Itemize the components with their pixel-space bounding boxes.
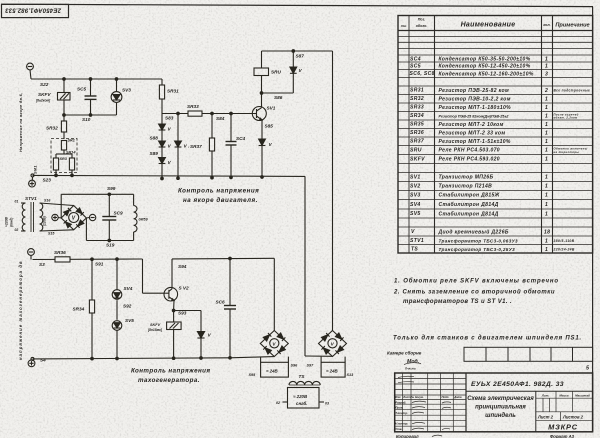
svg-text:SR1: SR1 (68, 139, 75, 143)
svg-text:SR36: SR36 (54, 250, 66, 255)
svg-text:принципиальная: принципиальная (475, 405, 526, 411)
svg-text:SR14: SR14 (66, 151, 76, 155)
svg-text:1: 1 (545, 113, 548, 119)
svg-text:S10: S10 (82, 117, 91, 122)
svg-text:S92: S92 (123, 304, 132, 309)
svg-text:Изм: Изм (395, 395, 400, 399)
svg-text:Резистор ПЭВ-25-82 ком: Резистор ПЭВ-25-82 ком (439, 88, 510, 94)
transistor SV1 (252, 106, 275, 121)
diode V at SRU (290, 50, 303, 93)
revision header texts (395, 395, 462, 399)
svg-text:Контроль напряжения: Контроль напряжения (178, 188, 259, 195)
svg-text:SC9: SC9 (114, 211, 124, 216)
terminal S3 (minus) (28, 249, 35, 260)
svg-text:трансформаторов ТS и SТ V1. .: трансформаторов ТS и SТ V1. . (403, 298, 512, 305)
svg-text:SТV1: SТV1 (25, 196, 37, 201)
svg-text:SR31: SR31 (410, 88, 424, 94)
svg-text:Диод кремниевый Д226Б: Диод кремниевый Д226Б (438, 228, 509, 235)
svg-text:3: 3 (545, 71, 548, 77)
wire top rail y79 (31, 78, 162, 80)
svg-text:SKFV: SKFV (38, 92, 51, 97)
svg-text:SV4: SV4 (124, 286, 133, 291)
primary voltage rotated label (5, 216, 9, 227)
svg-text:Резистор МЛТ-1-51к±10%: Резистор МЛТ-1-51к±10% (439, 139, 511, 145)
caption tacho control (131, 368, 210, 385)
svg-text:Мод.: Мод. (407, 359, 419, 365)
svg-text:1: 1 (545, 148, 548, 154)
junction x231 on base line (230, 112, 233, 115)
svg-text:Утв.: Утв. (395, 427, 402, 431)
resistor SR1 (61, 139, 74, 151)
svg-text:SC4: SC4 (236, 136, 246, 141)
svg-text:SR36: SR36 (410, 130, 424, 136)
wire secondary top to bridge (40, 203, 74, 206)
wire section1 rail down to bridge2 bottom (305, 176, 333, 356)
svg-text:[8±15мк]: [8±15мк] (147, 328, 163, 332)
winding box 24V right (321, 357, 345, 377)
svg-text:≈ 220В: ≈ 220В (293, 394, 308, 399)
svg-text:SV2: SV2 (410, 184, 421, 190)
svg-text:1: 1 (545, 105, 548, 111)
svg-text:SV1: SV1 (267, 106, 276, 111)
svg-text:ТS: ТS (299, 374, 306, 379)
revision grid (395, 373, 466, 432)
svg-text:ЕУЬХ 2Е450АФ1. 982Д. 33: ЕУЬХ 2Е450АФ1. 982Д. 33 (471, 381, 564, 388)
diode V d column (175, 114, 190, 179)
svg-text:1. Обмотки реле SKFV включен: 1. Обмотки реле SKFV включены встречно (394, 278, 559, 285)
relay coil SKFV (35, 92, 70, 103)
svg-text:18: 18 (544, 229, 550, 235)
svg-text:380/5-110В: 380/5-110В (554, 239, 575, 243)
svg-text:Реле РКН РС4.503.070: Реле РКН РС4.503.070 (439, 148, 500, 154)
diode V c (159, 147, 172, 179)
corner designation box (2, 4, 69, 17)
svg-text:Стабилитрон Д814Д: Стабилитрон Д814Д (439, 201, 499, 208)
svg-text:Примечание: Примечание (555, 22, 589, 28)
svg-text:S13: S13 (347, 373, 355, 377)
table headers (401, 18, 590, 29)
svg-text:Подп.: Подп. (442, 395, 450, 399)
bridge rectifier V diamond (61, 206, 86, 230)
svg-text:[8±2ком]: [8±2ком] (35, 99, 51, 103)
svg-text:Только для станков с двигателе: Только для станков с двигателем шпинделя… (393, 336, 582, 342)
svg-text:Поз.: Поз. (418, 18, 426, 22)
wire collector to rail (171, 259, 173, 289)
resistor SR3 left (53, 158, 58, 170)
svg-text:SC5: SC5 (77, 87, 87, 92)
svg-text:SKFV: SKFV (150, 323, 161, 327)
wire long vertical to bridge2 (332, 51, 334, 331)
svg-text:Лит.: Лит. (541, 394, 550, 398)
svg-text:SV5: SV5 (125, 318, 134, 323)
svg-text:Транзистор МП26Б: Транзистор МП26Б (439, 175, 494, 181)
svg-text:Дата: Дата (453, 395, 462, 399)
svg-text:Лист: Лист (402, 395, 411, 399)
indicator diode SV5 (112, 300, 134, 358)
svg-text:1: 1 (545, 122, 548, 128)
winding box 24V left (261, 357, 289, 377)
capacitor SC9 (102, 194, 123, 242)
svg-text:02: 02 (15, 228, 19, 232)
svg-text:S19: S19 (106, 243, 115, 248)
svg-text:S23: S23 (43, 178, 52, 183)
wire node S10 horizontal (64, 114, 117, 116)
svg-text:02: 02 (276, 401, 280, 405)
wire to parallel pair (56, 150, 76, 158)
svg-text:кол.: кол. (543, 23, 550, 27)
svg-text:обкат. 2,2ком: обкат. 2,2ком (554, 116, 579, 120)
svg-text:Лист 2: Лист 2 (537, 414, 554, 419)
transformer STV1 secondary winding (40, 203, 43, 231)
primary supply box 220V (283, 388, 325, 409)
svg-text:S84: S84 (216, 116, 225, 121)
svg-text:снаб.: снаб. (296, 401, 307, 406)
svg-text:№ докум.: № докум. (411, 395, 424, 399)
svg-text:1: 1 (545, 57, 548, 63)
svg-text:S99: S99 (107, 186, 116, 191)
svg-text:SR37: SR37 (410, 139, 424, 145)
svg-text:ТS: ТS (411, 247, 418, 253)
relay coil SKFV second winding (147, 311, 181, 359)
terminal S22 (minus) (27, 63, 34, 79)
svg-text:Резистор МЛТ-1-180±10%: Резистор МЛТ-1-180±10% (439, 105, 512, 111)
svg-text:(120В): (120В) (43, 216, 47, 226)
svg-text:V: V (411, 229, 415, 235)
transformer core (31, 202, 34, 232)
svg-text:S96: S96 (291, 364, 299, 368)
svg-text:Напряжение на якоре дв.6,: Напряжение на якоре дв.6, (18, 93, 23, 152)
svg-text:Резистор ПЭВ-10-2,2 ком: Резистор ПЭВ-10-2,2 ком (439, 96, 511, 102)
svg-text:SR31: SR31 (167, 89, 179, 94)
capacitor SC6 (216, 259, 237, 358)
indicator diode SV4 (112, 259, 133, 299)
relay SRU (254, 68, 282, 76)
svg-text:01: 01 (15, 200, 19, 204)
svg-text:Контроль напряжения: Контроль напряжения (131, 368, 210, 375)
svg-text:на якоре двигателя.: на якоре двигателя. (183, 197, 258, 204)
junction at 64,115 (63, 114, 66, 117)
wire bottom rail S19 (86, 240, 133, 242)
wire secondary bottom to bridge (40, 230, 74, 231)
resistor SR37 (190, 114, 215, 178)
svg-text:SRU: SRU (410, 148, 422, 154)
svg-text:STV1: STV1 (410, 238, 424, 244)
svg-text:SV3: SV3 (410, 193, 421, 199)
wire to flyback diode (174, 311, 201, 332)
svg-text:SR32: SR32 (46, 126, 58, 131)
parts list table grid (398, 16, 593, 254)
svg-text:Стабилитрон Д814Д: Стабилитрон Д814Д (439, 210, 499, 217)
svg-text:S94: S94 (178, 264, 187, 269)
wire relay to node S10 (63, 100, 65, 115)
svg-text:SR37: SR37 (190, 144, 202, 149)
svg-text:Трансформатор ТБС3-0,063У3: Трансформатор ТБС3-0,063У3 (439, 237, 519, 243)
svg-text:1: 1 (545, 211, 548, 217)
capacitor SC4 (226, 114, 246, 178)
junction dots bottom rail (161, 176, 233, 180)
svg-text:S22: S22 (40, 82, 49, 87)
wire bottom rail section1 (33, 175, 306, 176)
svg-text:S3: S3 (39, 262, 45, 267)
transistor SV2 (164, 286, 189, 302)
indicator diode SV3 (111, 79, 131, 115)
svg-text:Пров.: Пров. (395, 405, 403, 409)
terminal S4 (plus) (28, 357, 35, 366)
doc number cell divider (466, 390, 593, 392)
svg-text:S16: S16 (44, 199, 51, 203)
svg-text:S86: S86 (274, 95, 283, 100)
svg-text:1: 1 (545, 175, 548, 181)
flyback diode V (197, 332, 211, 359)
resistor SR3 right (69, 158, 74, 170)
svg-text:МЗКРС: МЗКРС (548, 423, 578, 432)
svg-text:S97: S97 (307, 364, 315, 368)
diode V emitter (259, 120, 273, 178)
dashed adjustment box (51, 139, 77, 173)
terminal minus output (86, 214, 95, 220)
svg-text:Конденсатор К50-12-450-20±10: Конденсатор К50-12-450-20±10% (439, 64, 531, 70)
svg-text:SV5: SV5 (410, 211, 421, 217)
svg-text:Все подстроечные: Все подстроечные (554, 89, 591, 93)
svg-text:SC5: SC5 (410, 63, 421, 69)
terminal S23 (plus) (29, 174, 36, 187)
svg-text:Т.контр.: Т.контр. (395, 411, 408, 415)
svg-text:SR3: SR3 (60, 157, 68, 161)
svg-text:1: 1 (545, 130, 548, 136)
junction dots tacho bottom rail (91, 357, 232, 360)
resistor SR33 (187, 104, 202, 116)
svg-text:S87: S87 (296, 54, 305, 59)
svg-text:Стабилитрон Д815Ж: Стабилитрон Д815Ж (439, 192, 500, 199)
svg-text:SRU: SRU (271, 70, 282, 75)
junction S86 (260, 92, 263, 95)
lit/massa/scale cells (536, 391, 593, 420)
svg-text:1: 1 (545, 157, 548, 163)
svg-text:Пчж.та: Пчж.та (405, 367, 416, 371)
svg-text:S91: S91 (95, 262, 104, 267)
inductor choke (134, 194, 149, 240)
drawing title (467, 396, 534, 419)
svg-text:(тнд): (тнд) (10, 217, 14, 227)
svg-text:Листов 2: Листов 2 (562, 414, 584, 419)
svg-text:2. Снять заземление со вторичн: 2. Снять заземление со вторичной обмотки (393, 288, 555, 295)
secondary voltage rotated label (43, 216, 47, 226)
svg-text:S93: S93 (178, 311, 187, 316)
lit massa masshtab (541, 394, 590, 398)
junction S93 (172, 309, 175, 312)
svg-text:Формат А3: Формат А3 (550, 434, 575, 438)
junction x212 on base line (211, 112, 214, 115)
svg-text:S4: S4 (40, 358, 46, 363)
svg-text:напряжение тахогенератора дв: напряжение тахогенератора дв (18, 260, 23, 360)
corner designation text (rotated 180) (5, 6, 62, 12)
zener chain: diode V a (159, 114, 172, 132)
svg-text:SV3: SV3 (122, 88, 131, 93)
svg-text:1: 1 (545, 193, 548, 199)
svg-text:Реле РКН РС4.593.020: Реле РКН РС4.593.020 (439, 157, 500, 163)
svg-text:шпиндель: шпиндель (485, 413, 516, 419)
svg-text:SC4: SC4 (410, 56, 421, 62)
svg-text:220/24-24В: 220/24-24В (553, 248, 575, 252)
svg-text:S V2: S V2 (179, 286, 190, 291)
svg-text:тахогенератора.: тахогенератора. (138, 377, 200, 384)
svg-text:Разраб.: Разраб. (395, 400, 406, 404)
wire joining pair to bottom rail (55, 170, 74, 177)
frame right border line (592, 7, 594, 432)
svg-text:S89: S89 (150, 151, 159, 156)
svg-text:SV4: SV4 (410, 202, 421, 208)
junction at cap top (108, 193, 111, 196)
junction on rail at x116.5 (115, 78, 118, 81)
svg-text:на тиристоры: на тиристоры (554, 150, 580, 154)
wire S86 horizontal (262, 92, 294, 94)
handwritten signatures (398, 376, 451, 429)
wire emitter down (173, 301, 175, 311)
svg-text:S15: S15 (48, 232, 55, 236)
signature rows (395, 400, 408, 431)
svg-text:Наименование: Наименование (461, 22, 516, 29)
svg-text:Н.контр.: Н.контр. (395, 422, 408, 426)
diode V b (159, 130, 172, 149)
transformer STV1 primary winding (21, 203, 26, 231)
svg-text:SR33: SR33 (410, 105, 424, 111)
svg-text:SV1: SV1 (410, 175, 421, 181)
wire tacho top rail (33, 258, 143, 261)
resistor SR34 (73, 259, 95, 359)
svg-text:SC6: SC6 (216, 300, 226, 305)
svg-text:Трансформатор ТБС3-0,25У3: Трансформатор ТБС3-0,25У3 (439, 246, 516, 252)
svg-text:Копировал: Копировал (396, 434, 419, 438)
svg-text:Конденсатор К50-12-160-200±10: Конденсатор К50-12-160-200±10% (439, 71, 534, 77)
svg-text:Обо: Обо (401, 24, 407, 28)
caption armature control (178, 188, 259, 205)
svg-text:SC6, SC8: SC6, SC8 (410, 71, 435, 77)
svg-text:SR35: SR35 (410, 122, 424, 128)
svg-text:1: 1 (545, 202, 548, 208)
svg-text:≈ 24В: ≈ 24В (326, 369, 339, 374)
title block outer box (395, 373, 593, 432)
junction dots tacho rail (91, 257, 232, 260)
svg-text:Схема электрическая: Схема электрическая (467, 396, 534, 402)
wire DC plus up to rail (60, 194, 62, 218)
svg-text:1: 1 (545, 184, 548, 190)
svg-text:Конденсатор К50-35-50-200±10: Конденсатор К50-35-50-200±10% (439, 57, 531, 63)
svg-text:SKFV: SKFV (410, 157, 425, 163)
resistor SR32 (46, 115, 67, 139)
svg-text:обозн.: обозн. (416, 24, 428, 28)
resistor SR31 (159, 79, 179, 114)
svg-text:V .: V . (184, 144, 190, 149)
wire top y51 (262, 50, 333, 52)
svg-text:1: 1 (545, 238, 548, 244)
svg-text:1: 1 (545, 247, 548, 253)
svg-text:Резистор МЛТ-2 10ком: Резистор МЛТ-2 10ком (439, 122, 504, 128)
svg-text:2Е450АФ1.982.533: 2Е450АФ1.982.533 (5, 6, 62, 12)
wire base branch (143, 259, 166, 293)
svg-text:2: 2 (544, 88, 548, 94)
svg-text:S95: S95 (249, 373, 257, 377)
svg-text:Камере сборне: Камере сборне (387, 350, 422, 356)
svg-text:03: 03 (325, 402, 329, 406)
junction on rail at x90.5 (89, 78, 92, 81)
terminal plus output (52, 214, 61, 220)
junction x178 on base line (177, 112, 180, 115)
wire collector to relay SRU (261, 76, 263, 108)
wire relay drop (63, 79, 65, 93)
frame top border line (1, 4, 593, 6)
svg-text:≈220В: ≈220В (5, 216, 9, 227)
svg-text:S83: S83 (165, 116, 174, 121)
svg-text:1: 1 (545, 139, 548, 145)
svg-text:≈ 24В: ≈ 24В (266, 369, 279, 374)
transformer TS primary winding (289, 381, 320, 385)
wire tacho bottom rail (33, 357, 275, 359)
svg-text:SR32: SR32 (410, 96, 424, 102)
svg-text:0И59: 0И59 (139, 218, 149, 222)
svg-text:Транзистор П214В: Транзистор П214В (439, 184, 493, 190)
wire rail to bridge1 top (273, 258, 275, 330)
wire rail S99 (61, 193, 133, 195)
resistor SR36 (54, 250, 70, 262)
bridge rectifier 1 (260, 331, 288, 357)
wire base line y113.5 (162, 113, 254, 115)
svg-text:SR34: SR34 (73, 307, 85, 312)
table rows (410, 56, 591, 253)
svg-text:Масштаб: Масштаб (575, 394, 590, 398)
svg-text:Масса: Масса (559, 394, 569, 398)
svg-text:S88: S88 (150, 136, 159, 141)
additional columns strip (464, 347, 593, 361)
left margin rotated label armature (18, 93, 23, 152)
svg-text:S85: S85 (265, 124, 274, 129)
svg-text:SR33: SR33 (187, 104, 199, 109)
capacitor SC5 (77, 79, 97, 115)
junction on rail at x64 (63, 78, 66, 81)
svg-text:Резистор МЛТ-2 33 ком: Резистор МЛТ-2 33 ком (439, 130, 506, 136)
svg-text:1: 1 (545, 96, 548, 102)
svg-text:Резистор ПЭВ-25 82ком(Дм)ПЭВ-2: Резистор ПЭВ-25 82ком(Дм)ПЭВ-25±2 (439, 114, 510, 118)
bridge rectifier 2 (319, 331, 347, 357)
left margin rotated label tacho (18, 260, 23, 360)
svg-text:1: 1 (545, 64, 548, 70)
svg-text:SR34: SR34 (410, 113, 424, 119)
wire DC minus down (85, 218, 87, 241)
wire SRU to top wire (261, 51, 263, 68)
svg-text:SМ1: SМ1 (33, 165, 38, 174)
